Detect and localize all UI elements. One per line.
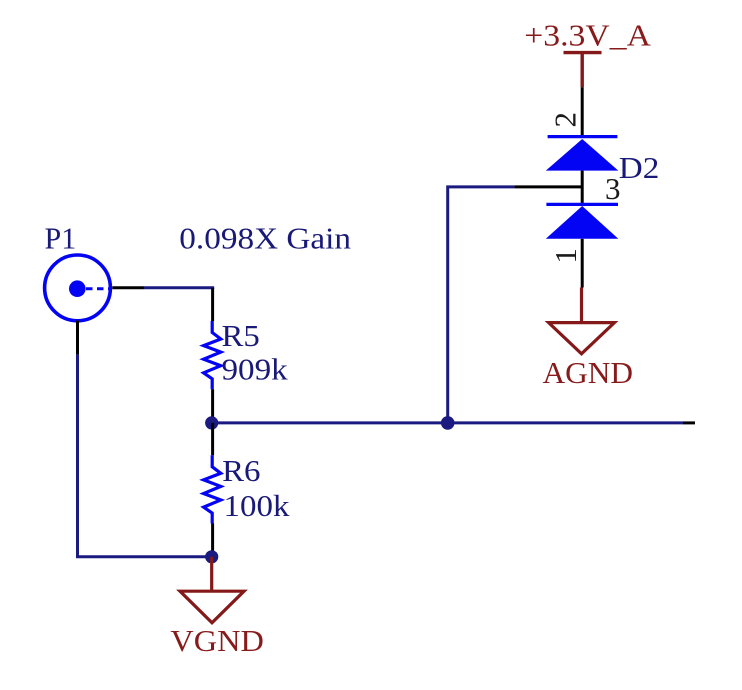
pin R6.1 stub bbox=[211, 423, 214, 455]
wire net from junction to D2 pin 3 bbox=[448, 187, 515, 423]
pin P1 bottom stub bbox=[76, 321, 79, 355]
svg-text:AGND: AGND bbox=[543, 355, 634, 390]
ground AGND bbox=[549, 323, 615, 354]
pin R5.2 stub bbox=[211, 389, 214, 423]
pin stub right end bbox=[683, 421, 695, 424]
svg-text:1: 1 bbox=[548, 248, 583, 264]
diode D2 bottom half (pins 3-1) bbox=[546, 204, 619, 238]
pin R5.1 stub bbox=[211, 288, 214, 321]
junction at R5/R6 divider bbox=[205, 416, 218, 429]
svg-text:100k: 100k bbox=[224, 488, 291, 523]
svg-text:R5: R5 bbox=[222, 318, 260, 353]
wire stem to AGND bbox=[580, 288, 583, 323]
wire P1 to R5 bbox=[144, 286, 214, 289]
wire D2 pin 1 bbox=[581, 239, 584, 288]
svg-text:2: 2 bbox=[548, 112, 583, 128]
wire between diode halves bbox=[581, 171, 584, 205]
power symbol +3.3V_A bbox=[564, 53, 602, 88]
svg-text:P1: P1 bbox=[45, 221, 77, 256]
svg-text:R6: R6 bbox=[222, 453, 260, 488]
svg-text:0.098X Gain: 0.098X Gain bbox=[179, 221, 351, 256]
pin P1 right stub bbox=[112, 286, 144, 289]
svg-text:3: 3 bbox=[605, 171, 621, 206]
resistor R5 bbox=[204, 321, 221, 389]
resistor R6 bbox=[204, 455, 221, 523]
diode D2 top half (pins 2-3) bbox=[546, 137, 619, 171]
svg-text:D2: D2 bbox=[619, 150, 660, 185]
pin R6.2 stub bbox=[211, 524, 214, 557]
wire stem to VGND bbox=[210, 557, 213, 591]
svg-text:+3.3V_A: +3.3V_A bbox=[524, 17, 651, 52]
connector P1 bbox=[45, 255, 111, 321]
ground VGND bbox=[180, 591, 244, 623]
junction at bus / D2 branch bbox=[441, 416, 455, 430]
wire P1 to VGND junction bbox=[78, 355, 212, 557]
wire output bus bbox=[212, 421, 683, 424]
svg-text:909k: 909k bbox=[222, 351, 289, 386]
svg-text:VGND: VGND bbox=[170, 623, 264, 658]
wire power to D2 pin 2 bbox=[581, 87, 584, 136]
pin D2.3 stub bbox=[514, 185, 582, 188]
junction at R6 / VGND bbox=[205, 550, 218, 563]
